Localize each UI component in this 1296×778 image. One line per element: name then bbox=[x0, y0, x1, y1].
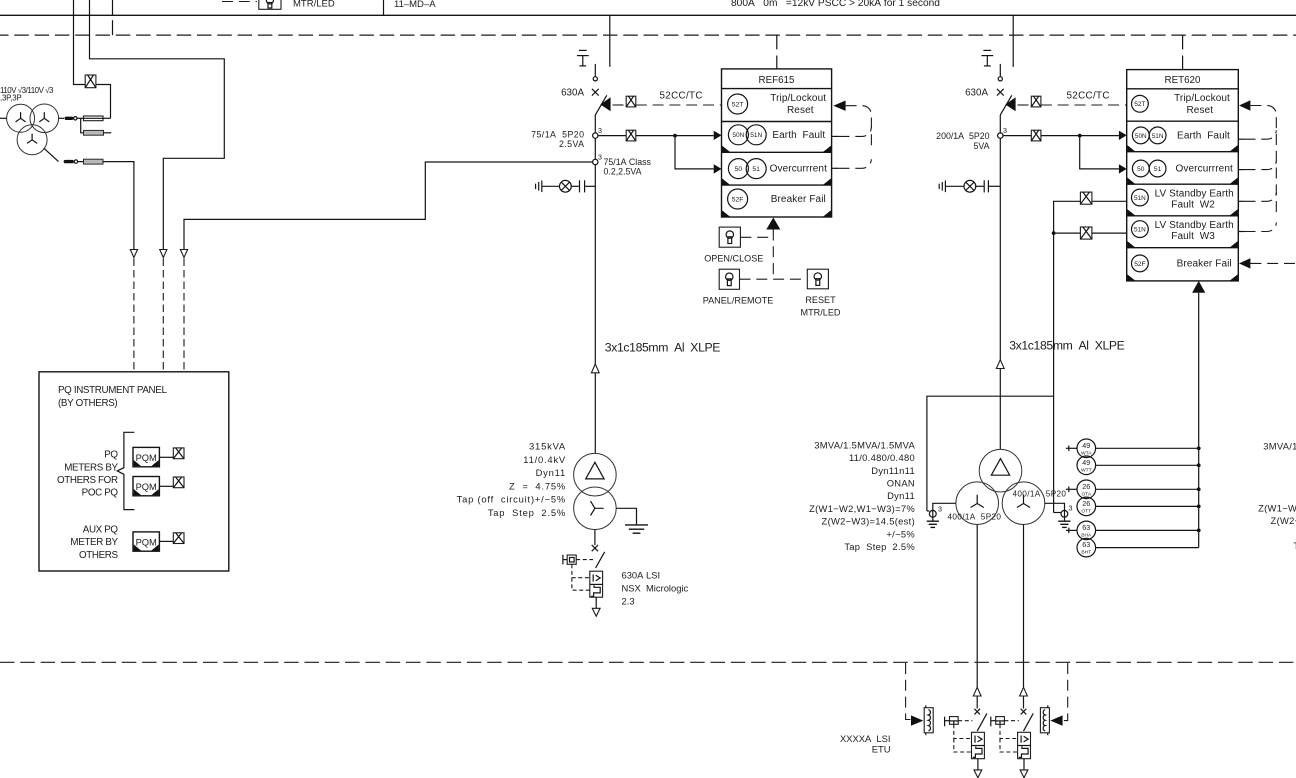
svg-text:Fault W2: Fault W2 bbox=[1171, 199, 1215, 210]
wire 63BHA to stack bbox=[1096, 529, 1199, 531]
trip coil right bbox=[1040, 705, 1049, 735]
svg-text:11–MD–A: 11–MD–A bbox=[394, 0, 436, 10]
svg-text:OPEN/CLOSE: OPEN/CLOSE bbox=[704, 254, 763, 264]
svg-text:200/1A 5P20: 200/1A 5P20 bbox=[936, 131, 989, 141]
svg-text:Dyn11n11: Dyn11n11 bbox=[871, 465, 915, 476]
device 52T REF615 bbox=[728, 94, 748, 114]
breaker LV W2 X mark bbox=[974, 709, 980, 715]
wire LV W2 to arrow bbox=[977, 759, 979, 770]
wire dashed aux to blade NSX bbox=[576, 559, 593, 561]
svg-text:Z(W1−W2,W1−W3)=7%: Z(W1−W2,W1−W3)=7% bbox=[809, 503, 915, 514]
svg-text:51N: 51N bbox=[1134, 227, 1146, 234]
label PQ METERS BY OTHERS FOR POC PQ bbox=[57, 450, 119, 499]
device 50 51 RET620 bbox=[1132, 160, 1166, 177]
terminal box 52CC right bbox=[1031, 96, 1041, 107]
voltage transformer 3-winding VT bbox=[7, 104, 59, 155]
wire T1 LV down bbox=[594, 530, 596, 546]
fuse holder circle secondary 2 bbox=[74, 160, 77, 163]
wire riser to upper sheet left B bbox=[90, 0, 225, 250]
wire riser to upper sheet left A bbox=[74, 0, 86, 85]
aux contact box NSX bbox=[563, 555, 576, 565]
svg-text:52CC/TC: 52CC/TC bbox=[1067, 90, 1110, 101]
wire junction down to overcurrent row bbox=[675, 136, 714, 169]
svg-text:Breaker Fail: Breaker Fail bbox=[771, 194, 826, 205]
svg-text:METER BY: METER BY bbox=[70, 537, 118, 548]
wire W3 box to RET620 bbox=[1092, 232, 1127, 234]
svg-text:800A 0m =12kV PSCC > 20kA: 800A 0m =12kV PSCC > 20kA for 1 second bbox=[731, 0, 940, 9]
corner flags REF615 rows bbox=[722, 146, 831, 217]
label LV Standby Earth Fault W3 bbox=[1155, 220, 1234, 242]
svg-text:PQM: PQM bbox=[136, 453, 157, 463]
arrow cable marker right bbox=[996, 360, 1004, 369]
wire dashed stub top cut-off bbox=[222, 1, 257, 3]
device 51N W3 RET620 bbox=[1132, 221, 1149, 238]
svg-text:MTR/LED: MTR/LED bbox=[801, 308, 841, 318]
device 51N W2 RET620 bbox=[1132, 189, 1149, 206]
svg-text:Z(W2−W3)=14.5(est): Z(W2−W3)=14.5(est) bbox=[1271, 515, 1296, 526]
device 50N 51N RET620 bbox=[1132, 127, 1166, 144]
control switch PANEL/REMOTE bbox=[719, 269, 739, 289]
label transformer T2 specs bbox=[809, 439, 915, 552]
wire right feeder main bbox=[999, 115, 1001, 450]
wire PQM3 output bbox=[159, 540, 173, 542]
arrow up into REF615 bottom bbox=[766, 218, 780, 230]
ground CT W2 bbox=[927, 521, 939, 527]
wire 26OTA to stack bbox=[1096, 488, 1199, 490]
aux contact box LV W3 bbox=[991, 717, 1005, 727]
svg-text:630A: 630A bbox=[965, 88, 988, 99]
svg-text:51N: 51N bbox=[750, 132, 762, 139]
ground T1 neutral bbox=[625, 525, 648, 533]
device 50N 51N REF615 bbox=[728, 125, 766, 145]
svg-text:2.3: 2.3 bbox=[622, 595, 635, 606]
arrow reset into REF615 row1 bbox=[833, 101, 845, 111]
svg-text:Overcurrrent: Overcurrrent bbox=[770, 164, 827, 175]
label 630A LSI NSX Micrologic bbox=[622, 569, 689, 606]
PQ meter PQM1 bbox=[133, 447, 159, 466]
wire riser 11-MD-A bbox=[383, 0, 385, 15]
wire dashed aux bracket LV W3 bbox=[1000, 724, 1018, 752]
svg-text:3: 3 bbox=[598, 126, 602, 135]
wire dashed PQ drop 3 bbox=[183, 259, 185, 372]
svg-text:Earth Fault: Earth Fault bbox=[772, 130, 825, 141]
device 26 OTT bbox=[1077, 497, 1096, 516]
wire riser stub left C bbox=[112, 0, 114, 15]
arrow into REF615 earth fault bbox=[714, 131, 722, 140]
svg-text:Z(W1−W2,W1−W3)=7%: Z(W1−W2,W1−W3)=7% bbox=[1258, 503, 1296, 514]
svg-text:50N: 50N bbox=[732, 132, 744, 139]
wire PQM1 output bbox=[159, 456, 173, 458]
wire LV W3 to arrow bbox=[1023, 759, 1025, 770]
svg-text:26: 26 bbox=[1082, 482, 1090, 491]
svg-text:3: 3 bbox=[1068, 504, 1072, 513]
arrow into RET620 earth fault bbox=[1119, 131, 1127, 140]
arrow cable marker LV W2 bbox=[973, 687, 981, 696]
svg-text:MTR/LED: MTR/LED bbox=[293, 0, 335, 9]
wire dashed 52CC blade to box left bbox=[613, 104, 627, 106]
breaker 630A right blade bbox=[1000, 95, 1012, 115]
arrow open down LV W3 bbox=[1020, 770, 1028, 778]
node junction W3 tap bbox=[1052, 231, 1056, 235]
svg-text:OTA: OTA bbox=[1081, 491, 1091, 497]
svg-text:49: 49 bbox=[1082, 458, 1090, 467]
node junction CT1 bbox=[673, 134, 677, 138]
node dot 49WTT bbox=[1197, 463, 1201, 467]
svg-text:AUX PQ: AUX PQ bbox=[83, 525, 119, 536]
svg-text:LV Standby Earth: LV Standby Earth bbox=[1155, 188, 1234, 199]
trip unit NSX Micrologic bbox=[590, 571, 603, 597]
wire CT1 to REF615 bbox=[598, 135, 714, 137]
label XXXXA LSI ETU bbox=[840, 733, 891, 755]
svg-text:LV Standby Earth: LV Standby Earth bbox=[1155, 220, 1234, 231]
wire W2 standby EF drop bbox=[1080, 200, 1126, 202]
wire dashed bus to REF615 bbox=[776, 35, 778, 69]
svg-text:REF615: REF615 bbox=[759, 75, 795, 86]
arrow open down PQ line 1 bbox=[130, 250, 137, 258]
breaker 630A left X mark bbox=[592, 89, 599, 96]
svg-text:3MVA/1.5MVA/1.5MVA: 3MVA/1.5MVA/1.5MVA bbox=[814, 439, 915, 450]
wire dashed 52CC blade to box right bbox=[1018, 104, 1032, 106]
svg-text:49: 49 bbox=[1082, 441, 1090, 450]
svg-text:52T: 52T bbox=[1134, 101, 1145, 108]
PQ instrument panel box bbox=[39, 372, 229, 571]
fuse clip secondary 1 bbox=[65, 117, 74, 120]
label RESET MTR/LED bbox=[801, 295, 841, 318]
fuse F2 bbox=[84, 130, 112, 135]
svg-text:ONAN: ONAN bbox=[887, 478, 915, 489]
svg-text:Breaker Fail: Breaker Fail bbox=[1177, 258, 1232, 269]
svg-text:51: 51 bbox=[1154, 166, 1162, 173]
svg-text:3x1c185mm Al XLPE: 3x1c185mm Al XLPE bbox=[1009, 339, 1124, 353]
breaker 630A right X mark bbox=[997, 89, 1004, 96]
terminal box W2 bbox=[1080, 192, 1092, 204]
fuse F3 bbox=[78, 159, 103, 164]
svg-text:Tap (off circuit)+/−5%: Tap (off circuit)+/−5% bbox=[457, 494, 566, 505]
wire RET620 to device stack bbox=[1198, 293, 1200, 548]
breaker LV W3 blade bbox=[1024, 713, 1034, 731]
transformer T2 3MVA 3-winding bbox=[956, 449, 1045, 524]
svg-text:,3P,3P: ,3P,3P bbox=[0, 94, 21, 103]
svg-text:RET620: RET620 bbox=[1165, 75, 1201, 86]
CT 400/1A W3 bbox=[1054, 504, 1073, 518]
svg-text:3: 3 bbox=[938, 505, 942, 514]
svg-text:Reset: Reset bbox=[787, 105, 814, 116]
svg-text:3MVA/1.5MVA/1.5MVA: 3MVA/1.5MVA/1.5MVA bbox=[1263, 441, 1296, 452]
svg-text:26: 26 bbox=[1082, 499, 1090, 508]
wire dashed reset loop REF615 bbox=[832, 106, 872, 169]
isolator contact right feeder bbox=[998, 64, 1002, 81]
wire dashed LV switchboard boundary bottom bbox=[0, 661, 1296, 663]
wire W3 standby EF tap bbox=[1054, 232, 1081, 234]
svg-text:OTT: OTT bbox=[1081, 508, 1091, 514]
relay RET620 box bbox=[1127, 70, 1239, 281]
svg-text:POC PQ: POC PQ bbox=[82, 488, 119, 499]
label LV Standby Earth Fault W2 bbox=[1155, 188, 1234, 210]
fuse F1 bbox=[77, 116, 111, 121]
arrow cable marker left bbox=[591, 364, 599, 373]
svg-text:51N: 51N bbox=[1152, 133, 1164, 140]
wire LV W2 to breaker bbox=[976, 696, 978, 709]
breaker trip arrow right bbox=[1005, 97, 1015, 111]
svg-text:+/−5%: +/−5% bbox=[886, 528, 915, 539]
arrow up into RET620 bottom bbox=[1192, 281, 1205, 293]
device 52F REF615 bbox=[728, 189, 748, 209]
node dot 49WTA bbox=[1197, 446, 1201, 450]
arrow reset into RET620 row1 bbox=[1239, 100, 1250, 110]
wire dashed 52CC to RET620 bbox=[1041, 104, 1127, 106]
svg-text:WTT: WTT bbox=[1081, 467, 1092, 473]
svg-text:11/0.480/0.480: 11/0.480/0.480 bbox=[849, 452, 915, 463]
wire T1 neutral to earth bbox=[616, 508, 636, 525]
wire VT primary left bbox=[0, 117, 7, 119]
isolator contact left feeder bbox=[593, 64, 597, 81]
svg-text:PQ: PQ bbox=[104, 450, 118, 461]
wire dashed intertrip right bbox=[1063, 663, 1068, 721]
arrow open down PQ line 2 bbox=[160, 250, 167, 258]
control switch key box top cut-off bbox=[259, 0, 281, 9]
label CT 75/1A 5P20 bbox=[531, 129, 584, 149]
svg-text:75/1A 5P20: 75/1A 5P20 bbox=[531, 129, 584, 139]
svg-text:Reset: Reset bbox=[1186, 105, 1213, 116]
fuse clip secondary 2 bbox=[64, 160, 74, 163]
svg-text:0.2,2.5VA: 0.2,2.5VA bbox=[604, 167, 642, 177]
breaker LV W2 blade bbox=[977, 713, 987, 731]
node dot 26OTA bbox=[1197, 487, 1201, 491]
wire dashed aux to blade LV W2 bbox=[958, 720, 972, 722]
trip unit LV W3 bbox=[1018, 732, 1031, 758]
svg-text:Tap Step 2.5%: Tap Step 2.5% bbox=[488, 507, 566, 518]
svg-text:2.5VA: 2.5VA bbox=[559, 139, 585, 149]
wire VT secondary 2 diagonal bbox=[44, 148, 59, 162]
breaker trip arrow left bbox=[600, 97, 610, 111]
svg-text:52F: 52F bbox=[1134, 261, 1145, 268]
wire VT secondary 1 bbox=[59, 117, 64, 119]
terminal box PQM1 bbox=[173, 448, 184, 459]
node dot 26OTT bbox=[1197, 505, 1201, 509]
device 49 WTT bbox=[1077, 456, 1096, 475]
wire VT fuse to riser bbox=[96, 85, 111, 119]
terminal box 52CC left bbox=[626, 96, 636, 107]
terminal box W3 bbox=[1080, 227, 1092, 239]
wire dashed PQ drop 1 bbox=[133, 259, 135, 372]
wire T2 W2 winding lead bbox=[933, 503, 956, 520]
wire dashed bus to RET620 bbox=[1182, 35, 1184, 70]
wire dashed 52CC to REF615 bbox=[636, 104, 722, 106]
breaker NSX blade bbox=[596, 552, 605, 568]
transformer T1 315kVA bbox=[574, 453, 617, 529]
wire dashed REF615 to control switches bbox=[740, 230, 807, 280]
svg-text:630A LSI: 630A LSI bbox=[622, 569, 661, 580]
PQ meter PQM3 bbox=[133, 532, 159, 551]
wire 63BHT to stack bbox=[1096, 547, 1199, 549]
svg-text:52CC/TC: 52CC/TC bbox=[660, 90, 703, 101]
wire fuse F2 branch bbox=[81, 118, 84, 133]
earth switch symbol right feeder bbox=[981, 50, 993, 66]
wire 49WTA to stack bbox=[1096, 447, 1199, 449]
svg-text:63: 63 bbox=[1082, 523, 1090, 532]
svg-text:Z = 4.75%: Z = 4.75% bbox=[509, 480, 566, 491]
svg-text:WTA: WTA bbox=[1081, 450, 1092, 456]
CT 200/1A 5P20 bbox=[998, 126, 1007, 138]
device 49 WTA bbox=[1066, 439, 1096, 458]
svg-text:Dyn11: Dyn11 bbox=[536, 467, 566, 478]
wire left feeder main bbox=[594, 115, 596, 454]
voltage indicator left feeder bbox=[536, 180, 596, 192]
wire metering CT to PQ line 3 bbox=[184, 162, 593, 250]
svg-text:50N: 50N bbox=[1135, 133, 1147, 140]
svg-text:PANEL/REMOTE: PANEL/REMOTE bbox=[703, 296, 774, 306]
control switch OPEN/CLOSE bbox=[719, 227, 740, 247]
svg-text:Overcurrrent: Overcurrrent bbox=[1176, 164, 1233, 175]
wire dashed aux bracket NSX bbox=[572, 564, 590, 590]
label CT 75/1A Class bbox=[604, 157, 652, 177]
wire dashed PQ drop 2 bbox=[162, 259, 164, 372]
wire dashed cubicle boundary top bbox=[0, 34, 1296, 36]
svg-text:METERS BY: METERS BY bbox=[64, 462, 118, 473]
aux contact box LV W2 bbox=[945, 717, 959, 727]
svg-text:3: 3 bbox=[1003, 126, 1007, 135]
wire bus drop left feeder bbox=[609, 15, 611, 67]
svg-text:3x1c185mm Al XLPE: 3x1c185mm Al XLPE bbox=[605, 340, 720, 354]
svg-text:OTHERS: OTHERS bbox=[79, 550, 119, 561]
arrow cable marker LV W3 bbox=[1020, 687, 1028, 696]
svg-text:51N: 51N bbox=[1134, 195, 1146, 202]
wire CT to RET620 bbox=[1003, 135, 1119, 137]
node junction CT right bbox=[1078, 134, 1082, 138]
trip coil left bbox=[924, 705, 933, 735]
fuse holder circle secondary 1 bbox=[74, 117, 77, 120]
PQ meter PQM2 bbox=[133, 477, 159, 496]
svg-text:63: 63 bbox=[1082, 540, 1090, 549]
label Trip/Lockout Reset REF615 bbox=[770, 93, 826, 116]
wire W2 box to vertical bbox=[1054, 201, 1081, 512]
svg-text:50: 50 bbox=[1137, 166, 1145, 173]
wire dashed intertrip left bbox=[906, 663, 915, 720]
svg-text:PQM: PQM bbox=[136, 537, 157, 547]
breaker NSX X mark bbox=[592, 545, 598, 551]
wire LV feeder W2 down bbox=[976, 525, 978, 688]
wire F3 to PQ line 1 bbox=[103, 162, 134, 250]
svg-text:Trip/Lockout: Trip/Lockout bbox=[1174, 93, 1230, 104]
ground CT W3 bbox=[1058, 521, 1070, 527]
svg-text:OTHERS FOR: OTHERS FOR bbox=[57, 475, 118, 486]
arrow open down LV W2 bbox=[974, 770, 982, 778]
svg-text:400/1A 5P20: 400/1A 5P20 bbox=[948, 513, 1002, 522]
terminal box CT1 bbox=[626, 130, 636, 141]
svg-text:(BY OTHERS): (BY OTHERS) bbox=[58, 398, 117, 409]
svg-text:XXXXA LSI: XXXXA LSI bbox=[840, 733, 891, 744]
svg-text:BHA: BHA bbox=[1081, 532, 1092, 538]
svg-text:Fault W3: Fault W3 bbox=[1171, 231, 1215, 242]
wire T2 interconnect top bbox=[927, 396, 1054, 511]
svg-text:Tap Step 2.5%: Tap Step 2.5% bbox=[844, 541, 915, 552]
wire tick below bus left C bbox=[112, 20, 114, 35]
device 26 OTA bbox=[1066, 480, 1096, 499]
brace PQ meters group bbox=[117, 432, 134, 509]
label AUX PQ METER BY OTHERS bbox=[70, 525, 118, 562]
arrow into REF615 overcurrent bbox=[714, 164, 722, 173]
svg-text:5VA: 5VA bbox=[974, 141, 990, 151]
svg-text:52F: 52F bbox=[732, 196, 744, 203]
terminal box PQM2 bbox=[173, 477, 184, 488]
svg-text:Earth Fault: Earth Fault bbox=[1177, 130, 1230, 141]
wire dashed aux to blade LV W3 bbox=[1004, 720, 1018, 722]
wire dashed reset loops RET620 bbox=[1238, 106, 1276, 232]
wire bus drop right feeder bbox=[1012, 15, 1014, 67]
CT 400/1A W2 bbox=[927, 505, 942, 518]
arrow into RET620 breaker fail bbox=[1239, 258, 1250, 268]
device 52T RET620 bbox=[1132, 95, 1149, 112]
svg-text:NSX Micrologic: NSX Micrologic bbox=[622, 582, 689, 593]
svg-text:315kVA: 315kVA bbox=[529, 441, 566, 452]
breaker 630A left blade bbox=[595, 95, 607, 115]
arrow open down NSX feeder bbox=[592, 608, 600, 616]
svg-text:3: 3 bbox=[598, 153, 602, 162]
busbar 11kV main bus bbox=[0, 14, 1296, 16]
svg-text:51: 51 bbox=[752, 166, 760, 173]
arrow open down PQ line 3 bbox=[180, 250, 187, 258]
breaker LV W3 X mark bbox=[1021, 709, 1027, 715]
device 63 BHT bbox=[1077, 538, 1096, 557]
svg-text:BHT: BHT bbox=[1081, 550, 1091, 556]
wire T2 W3 winding lead bbox=[1045, 503, 1065, 520]
wire dashed aux bracket LV W2 bbox=[954, 724, 972, 752]
fuse-link box VT primary bbox=[85, 75, 96, 88]
device 63 BHA bbox=[1066, 521, 1096, 540]
arrow into RET620 overcurrent bbox=[1119, 164, 1127, 173]
svg-text:PQ INSTRUMENT PANEL: PQ INSTRUMENT PANEL bbox=[58, 385, 167, 396]
svg-text:PQM: PQM bbox=[136, 482, 157, 492]
svg-text:75/1A Class: 75/1A Class bbox=[604, 157, 652, 167]
svg-text:630A: 630A bbox=[561, 88, 584, 99]
earth switch symbol left feeder bbox=[577, 50, 589, 66]
svg-text:Z(W2−W3)=14.5(est): Z(W2−W3)=14.5(est) bbox=[822, 516, 915, 527]
trip unit LV W2 bbox=[972, 732, 985, 758]
label transformer T1 specs bbox=[457, 441, 566, 519]
svg-text:ETU: ETU bbox=[872, 744, 891, 755]
relay REF615 box bbox=[722, 69, 832, 217]
wire LV feeder W3 down bbox=[1023, 525, 1025, 688]
svg-text:50: 50 bbox=[735, 166, 743, 173]
CT 75/1A Class 0.2 bbox=[593, 153, 602, 165]
terminal box PQM3 bbox=[173, 533, 184, 544]
arrow into coil left bbox=[911, 715, 923, 725]
arrow into coil right bbox=[1050, 715, 1062, 725]
label CT 200/1A 5P20 5VA bbox=[936, 131, 989, 151]
label transformer specs right edge bbox=[1258, 441, 1296, 551]
CT 75/1A 5P20 bbox=[593, 126, 602, 138]
svg-text:Trip/Lockout: Trip/Lockout bbox=[770, 93, 826, 104]
svg-text:11/0.4kV: 11/0.4kV bbox=[523, 454, 566, 465]
wire PQM2 output bbox=[159, 485, 173, 487]
svg-text:400/1A 5P20: 400/1A 5P20 bbox=[1013, 489, 1067, 498]
svg-text:52T: 52T bbox=[732, 101, 744, 108]
corner flags RET620 rows bbox=[1127, 145, 1238, 281]
wire junction down to overcurrent RET620 bbox=[1080, 136, 1119, 169]
wire LV W3 to breaker bbox=[1023, 696, 1025, 709]
wire 49WTT to stack bbox=[1096, 464, 1199, 466]
label Trip/Lockout Reset RET620 bbox=[1174, 93, 1230, 116]
wire NSX to arrow bbox=[595, 597, 597, 608]
control switch RESET bbox=[807, 269, 828, 289]
wire 26OTT to stack bbox=[1096, 505, 1199, 507]
device 50 51 REF615 bbox=[728, 159, 766, 179]
wire dashed breaker fail to edge bbox=[1250, 262, 1296, 264]
svg-text:RESET: RESET bbox=[805, 295, 836, 305]
device 52F RET620 bbox=[1132, 255, 1149, 272]
terminal box CT right bbox=[1031, 130, 1041, 141]
voltage indicator right feeder bbox=[939, 180, 1000, 192]
